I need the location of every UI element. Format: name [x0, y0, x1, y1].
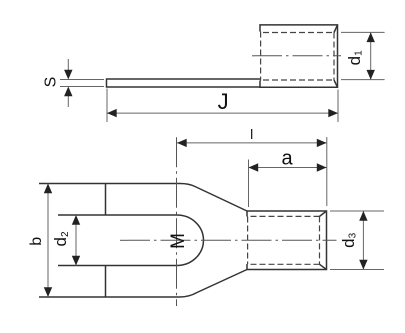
a dimension line with arrows — [249, 163, 327, 171]
svg-text:M: M — [168, 233, 189, 249]
S dimension arrows — [64, 59, 72, 107]
d1 dimension line with arrows — [367, 32, 375, 79]
a extension line left — [248, 160, 250, 208]
svg-text:a: a — [281, 148, 293, 170]
barrel flare bevels (side view) — [334, 25, 338, 87]
d3 dimension line with arrows — [359, 211, 367, 270]
svg-text:J: J — [218, 89, 229, 114]
vertical centerline through slot center — [176, 137, 178, 306]
slot (U shaped opening) — [58, 215, 204, 266]
hidden bore lines (dashed, side view) — [261, 32, 334, 81]
centerline of barrel (side view) — [252, 55, 341, 57]
horizontal centerline (plan view) — [120, 239, 337, 241]
l extension line right — [326, 137, 328, 206]
S extension lines — [60, 80, 104, 87]
prong tip end faces — [105, 184, 107, 298]
d3 extension lines — [330, 211, 384, 270]
svg-text:S: S — [43, 77, 60, 88]
barrel outer body (side view) — [260, 25, 338, 87]
barrel flare bevels (plan view) — [320, 211, 327, 270]
svg-text:l: l — [250, 126, 253, 142]
tongue bar (side view) — [107, 79, 261, 87]
d2 dimension line with arrows — [72, 215, 80, 266]
l dimension line with arrows — [177, 139, 327, 147]
hidden bore lines (dashed, plan view) — [248, 216, 320, 264]
fork outline bottom edge with taper — [39, 270, 247, 298]
J dimension line with arrows — [107, 109, 338, 117]
J extension line left — [106, 89, 108, 123]
b dimension line with arrows — [44, 184, 52, 298]
J extension line right — [337, 90, 339, 123]
d1 extension lines — [341, 32, 385, 79]
svg-text:b: b — [28, 237, 45, 246]
barrel outer body (plan view) — [247, 211, 327, 270]
fork outline top edge with taper — [39, 184, 247, 212]
